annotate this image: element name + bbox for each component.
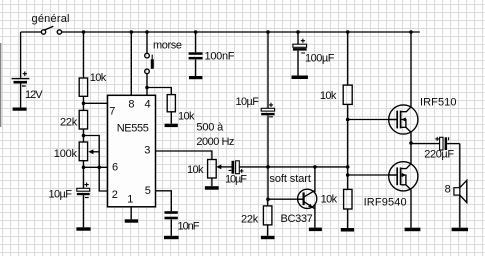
svg-text:2: 2 bbox=[112, 189, 118, 201]
wire: morse node to pulldown resistor bbox=[147, 88, 171, 95]
svg-text:10µF: 10µF bbox=[225, 174, 247, 186]
op-amp U1 NE555 body bbox=[108, 95, 156, 207]
node: rail junction at x=147 bbox=[145, 30, 149, 34]
svg-text:8: 8 bbox=[445, 183, 451, 195]
resistor 22k (base) bbox=[263, 199, 272, 236]
svg-text:8: 8 bbox=[128, 99, 134, 111]
wire: pin 3 to potentiometer top bbox=[156, 151, 212, 160]
ground (100uF) bbox=[292, 76, 308, 80]
capacitor 220uF (electrolytic) bbox=[435, 137, 448, 150]
svg-text:3: 3 bbox=[144, 145, 150, 157]
svg-text:100µF: 100µF bbox=[305, 53, 335, 65]
wire: positive rail from battery to switch bbox=[21, 31, 42, 33]
capacitor 100nF bbox=[189, 32, 203, 76]
capacitor 10uF (coupling, electrolytic) bbox=[229, 161, 244, 174]
svg-text:NE555: NE555 bbox=[117, 123, 149, 135]
node: collector junction bbox=[313, 165, 317, 169]
wire: to NE555 pin 6 bbox=[84, 166, 108, 168]
svg-text:10µF: 10µF bbox=[236, 96, 260, 108]
node: rail junction at x=411 bbox=[409, 30, 413, 34]
svg-text:6: 6 bbox=[112, 162, 118, 174]
capacitor 10nF bbox=[165, 211, 178, 219]
ground (pot) bbox=[205, 186, 219, 190]
svg-text:10nF: 10nF bbox=[178, 221, 200, 233]
svg-text:100nF: 100nF bbox=[205, 51, 235, 63]
node: rail junction at x=347.7 bbox=[346, 30, 350, 34]
ground (battery) bbox=[13, 108, 27, 111]
wire: 10k to 22k bbox=[83, 96, 85, 110]
left border line bbox=[0, 43, 2, 127]
node: junction pin7 bbox=[82, 102, 86, 106]
wire: capacitor to ground bbox=[83, 195, 85, 227]
wire: to IRF9540 gate bbox=[348, 174, 397, 176]
capacitor 100uF (electrolytic) bbox=[293, 32, 307, 76]
speaker 8 ohm bbox=[454, 180, 467, 202]
ground (pin4 pulldown) bbox=[165, 124, 178, 127]
svg-text:10k: 10k bbox=[178, 111, 195, 123]
node: base node junction bbox=[266, 197, 270, 201]
wire: coupling cap to bias chain bbox=[239, 166, 347, 168]
switch général bbox=[41, 26, 61, 34]
ground (pin 1) bbox=[125, 219, 138, 222]
node: gate node IRF9540 bbox=[346, 173, 350, 177]
svg-text:IRF510: IRF510 bbox=[420, 96, 457, 108]
transistor Q3 IRF9540 bbox=[389, 143, 418, 228]
node: rail junction at x=268 bbox=[266, 30, 270, 34]
node: output node bbox=[409, 141, 413, 145]
svg-text:22k: 22k bbox=[241, 214, 259, 226]
node: rail junction at x=83.5 bbox=[82, 30, 86, 34]
svg-text:BC337: BC337 bbox=[281, 213, 313, 225]
wire: rail down to IRF510 drain bbox=[410, 32, 412, 107]
svg-text:1: 1 bbox=[127, 194, 133, 206]
battery 12V bbox=[12, 32, 30, 108]
ground (BC337 emitter) bbox=[309, 228, 322, 232]
wire: rail down to gate bias chain bbox=[347, 32, 349, 85]
svg-text:morse: morse bbox=[153, 39, 182, 51]
node: junction cap/signal wire bbox=[266, 165, 270, 169]
wire: speaker vertical bbox=[459, 144, 461, 228]
wire: rail to pin 8 bbox=[130, 32, 132, 95]
wire: pot bottom to pin6 node bbox=[83, 161, 85, 168]
svg-text:10k: 10k bbox=[321, 194, 338, 206]
wire: base node to BC337 base bbox=[268, 198, 304, 200]
push button morse bbox=[145, 32, 154, 95]
svg-text:général: général bbox=[32, 13, 70, 25]
wire: wiper tie (up and over) bbox=[84, 136, 100, 168]
svg-text:4: 4 bbox=[145, 99, 151, 111]
wire: to IRF510 gate bbox=[348, 119, 397, 121]
svg-text:10µF: 10µF bbox=[49, 188, 73, 200]
wire: soft start cap down to base node bbox=[267, 115, 269, 199]
potentiometer 100k bbox=[79, 142, 99, 161]
capacitor 10uF (timing, electrolytic) bbox=[77, 183, 90, 198]
ground (22k) bbox=[261, 236, 275, 239]
ground (10nF) bbox=[164, 236, 179, 239]
svg-text:7: 7 bbox=[109, 105, 115, 117]
svg-text:10k: 10k bbox=[187, 164, 204, 176]
svg-text:IRF9540: IRF9540 bbox=[364, 197, 407, 209]
wire: output node to 220uF bbox=[411, 143, 440, 145]
potentiometer 10k (volume) bbox=[208, 160, 232, 179]
svg-text:100k: 100k bbox=[54, 148, 78, 160]
svg-text:2000 Hz: 2000 Hz bbox=[196, 136, 234, 148]
ground (100nF) bbox=[189, 76, 202, 79]
transistor Q1 BC337 bbox=[298, 167, 317, 228]
wire: pot bottom to ground bbox=[211, 178, 213, 186]
svg-text:22k: 22k bbox=[60, 117, 78, 129]
resistor 10k (left chain) bbox=[79, 78, 87, 96]
wire: NE555 pin 1 to ground bbox=[130, 207, 132, 220]
node: rail junction at x=195.6 bbox=[194, 30, 198, 34]
wire: resistor to ground bbox=[170, 112, 172, 124]
wire: pin6 node down to capacitor bbox=[83, 167, 85, 188]
svg-text:10k: 10k bbox=[320, 90, 337, 102]
wire: pin 5 to 10nF bbox=[156, 191, 172, 211]
resistor 10k (pin4 pulldown) bbox=[167, 95, 175, 112]
capacitor 10uF (soft start, electrolytic) bbox=[261, 32, 274, 117]
node: pin6 junction bbox=[82, 166, 86, 170]
resistor 10k (lower bias) bbox=[344, 189, 352, 209]
svg-text:500 à: 500 à bbox=[196, 122, 224, 134]
node: morse junction bbox=[145, 86, 149, 90]
node: rail junction at x=298 bbox=[296, 30, 300, 34]
node: soft start wire junction bbox=[346, 165, 350, 169]
wire: positive rail from switch to right end bbox=[62, 31, 420, 33]
transistor Q2 IRF510 bbox=[389, 105, 418, 143]
ground (IRF9540 drain) bbox=[405, 228, 421, 232]
ground (10uF) bbox=[76, 227, 90, 230]
wire: 220uF to speaker bbox=[447, 143, 460, 145]
wire: bias chain vertical bbox=[347, 104, 349, 189]
svg-text:12V: 12V bbox=[25, 89, 43, 101]
ground (bias chain) bbox=[341, 228, 354, 232]
svg-text:5: 5 bbox=[145, 185, 151, 197]
wire: rail down to 10k bbox=[83, 32, 85, 78]
resistor 22k bbox=[79, 110, 87, 129]
wire: junction to NE555 pin 7 bbox=[84, 102, 108, 104]
ground (speaker) bbox=[452, 228, 468, 232]
wire: 22k to potentiometer bbox=[83, 129, 85, 142]
node: gate node IRF510 bbox=[346, 118, 350, 122]
svg-text:10k: 10k bbox=[90, 72, 107, 84]
wire: 10nF to ground bbox=[170, 219, 172, 236]
resistor 10k (upper bias) bbox=[343, 85, 352, 104]
node: rail junction at x=131.3 bbox=[130, 30, 134, 34]
svg-text:220µF: 220µF bbox=[424, 149, 454, 161]
node: wiper junction bbox=[97, 166, 101, 170]
node: junction 22k/pot/wiper bbox=[82, 134, 86, 138]
svg-text:soft start: soft start bbox=[269, 173, 311, 185]
wire: lower bias resistor to ground bbox=[347, 209, 349, 228]
wire: wiper junction down to NE555 pin 2 bbox=[99, 167, 107, 191]
